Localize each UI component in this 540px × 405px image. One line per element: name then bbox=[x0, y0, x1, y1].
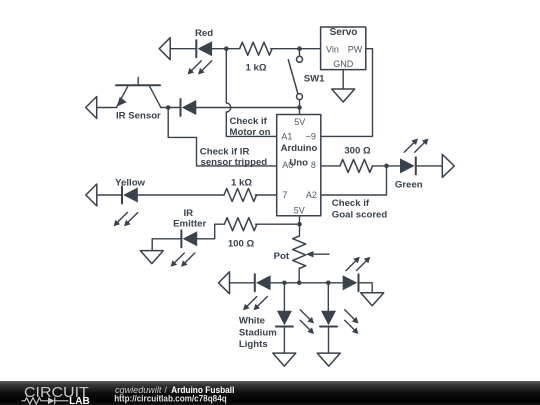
logo doodle: resistor bbox=[25, 398, 48, 404]
wire R4 to node F bbox=[373, 165, 401, 167]
node A junction dot bbox=[224, 46, 229, 51]
LED D4 IR Emitter bbox=[181, 230, 197, 247]
port flag P2 (IR sensor row) bbox=[86, 97, 97, 119]
logo doodle: wire bbox=[22, 400, 26, 402]
logo doodle: diode bbox=[48, 397, 55, 404]
wire node I down to LED D9 bbox=[327, 283, 329, 311]
svg-text:LAB: LAB bbox=[69, 396, 90, 405]
LED D9 (down) bbox=[320, 311, 337, 327]
wire servo PW to vertical bbox=[321, 49, 373, 137]
light arrows of D6 bbox=[243, 297, 267, 311]
wire D2 to node C (with hop at x=226.3) bbox=[196, 107, 299, 109]
resistor R4 300 Ohm bbox=[340, 159, 373, 172]
resistor R3 100 Ohm bbox=[224, 218, 257, 231]
svg-text:5V: 5V bbox=[294, 117, 305, 127]
svg-text:7: 7 bbox=[283, 190, 288, 200]
svg-text:5V: 5V bbox=[294, 206, 305, 216]
svg-text:~9: ~9 bbox=[306, 132, 316, 142]
ground under D8 bbox=[273, 353, 296, 366]
svg-text:sensor tripped: sensor tripped bbox=[201, 157, 268, 168]
wire D7 to ground bbox=[359, 283, 373, 293]
wire port to Red LED bbox=[170, 48, 196, 50]
svg-text:8: 8 bbox=[311, 160, 316, 170]
phototransistor Q1 IR Sensor bbox=[116, 78, 161, 107]
svg-text:300 Ω: 300 Ω bbox=[344, 146, 371, 157]
servo box U2 bbox=[321, 27, 366, 70]
wire node F down to pin A2 bbox=[321, 166, 387, 195]
light arrows of D9 bbox=[345, 310, 359, 334]
svg-text:1 kΩ: 1 kΩ bbox=[245, 63, 266, 74]
port flag P5 (bottom bus) bbox=[219, 272, 230, 294]
wire port to IR sensor emitter bbox=[97, 107, 117, 109]
pot wiper arrow bbox=[306, 251, 329, 257]
svg-text:Arduino: Arduino bbox=[281, 143, 318, 154]
light arrows of Green LED bbox=[404, 139, 428, 153]
wire D4 anode up to R3 bbox=[197, 224, 224, 239]
wire D8 to ground bbox=[283, 327, 285, 354]
svg-text:Goal scored: Goal scored bbox=[332, 210, 388, 221]
wire port to Yellow LED bbox=[97, 194, 122, 196]
svg-text:Emitter: Emitter bbox=[173, 219, 206, 230]
wire Red LED to node A bbox=[212, 48, 240, 50]
svg-text:IR Sensor: IR Sensor bbox=[116, 110, 161, 121]
light arrows of IR Emitter bbox=[171, 253, 195, 267]
node E junction dot bbox=[297, 222, 302, 227]
wire pin 8 to R4 bbox=[321, 165, 340, 167]
node G junction dot bbox=[282, 281, 287, 286]
svg-text:GND: GND bbox=[333, 59, 354, 69]
svg-text:A2: A2 bbox=[306, 190, 317, 200]
logo doodle: wire to LAB bbox=[55, 400, 69, 402]
wire Arduino 5V bottom to node E bbox=[299, 216, 301, 236]
ground under D9 bbox=[317, 353, 340, 366]
svg-text:Check if: Check if bbox=[332, 198, 370, 209]
svg-text:Motor on: Motor on bbox=[230, 127, 271, 138]
svg-text:100 Ω: 100 Ω bbox=[228, 238, 255, 249]
ground at IR emitter bbox=[140, 251, 163, 264]
wire switch to node C and Arduino 5V top bbox=[299, 100, 301, 115]
svg-text:http://circuitlab.com/c78q84q: http://circuitlab.com/c78q84q bbox=[114, 394, 227, 404]
potentiometer R5 Pot bbox=[293, 236, 306, 269]
port flag P3 (yellow row) bbox=[86, 184, 97, 206]
node H junction dot bbox=[297, 281, 302, 286]
svg-text:Red: Red bbox=[195, 28, 213, 39]
LED D1 Red bbox=[196, 40, 212, 57]
wire collector to node D bbox=[161, 107, 181, 109]
svg-text:Green: Green bbox=[395, 179, 423, 190]
LED D5 Green bbox=[400, 157, 416, 174]
light arrows of Yellow LED bbox=[114, 213, 138, 227]
light arrows of D8 bbox=[300, 310, 314, 334]
svg-text:Check if: Check if bbox=[230, 116, 268, 127]
Arduino Uno box U1 bbox=[277, 115, 321, 216]
svg-text:White: White bbox=[239, 316, 265, 327]
wire R2 to pin 7 bbox=[255, 194, 277, 196]
svg-text:A1: A1 bbox=[281, 132, 292, 142]
wire R3 to node E (below Arduino 5V bottom) bbox=[256, 223, 300, 225]
light arrows of D7 bbox=[346, 257, 370, 271]
ground right of D7 bbox=[361, 293, 384, 306]
wire servo GND pin down bbox=[342, 70, 344, 89]
wire D5 to port bbox=[416, 165, 443, 167]
ground under servo bbox=[332, 89, 355, 102]
svg-text:Stadium: Stadium bbox=[239, 328, 277, 339]
light arrows of Red LED bbox=[188, 61, 212, 75]
svg-text:Yellow: Yellow bbox=[115, 177, 145, 188]
LED D3 Yellow bbox=[122, 187, 138, 204]
svg-text:Pot: Pot bbox=[274, 251, 290, 262]
svg-text:Vin: Vin bbox=[326, 44, 339, 54]
footer bar bbox=[0, 381, 540, 405]
wire node B to switch bbox=[299, 49, 301, 57]
wire D9 to ground bbox=[328, 327, 330, 354]
node I junction dot bbox=[326, 281, 331, 286]
wire node G down to LED D8 bbox=[283, 283, 285, 311]
node D junction dot bbox=[166, 105, 171, 110]
svg-text:PW: PW bbox=[348, 44, 363, 54]
wire D4 cathode to ground bbox=[152, 239, 181, 251]
LED D7 (bus right, pointing right) bbox=[343, 274, 359, 291]
wire node A down, hop over, to A1 pin bbox=[226, 49, 276, 137]
node C junction dot bbox=[297, 105, 302, 110]
node F junction dot bbox=[384, 164, 389, 169]
LED D8 (down) bbox=[276, 311, 293, 327]
bus wire bbox=[271, 282, 343, 284]
svg-text:A0: A0 bbox=[282, 160, 293, 170]
svg-text:Servo: Servo bbox=[330, 27, 358, 38]
svg-text:1 kΩ: 1 kΩ bbox=[231, 177, 252, 188]
port flag P4 (green row) bbox=[442, 154, 454, 177]
svg-text:Lights: Lights bbox=[239, 339, 268, 350]
svg-text:Check if IR: Check if IR bbox=[200, 146, 250, 157]
resistor R2 1 kOhm bbox=[224, 189, 257, 202]
footer background bbox=[0, 381, 540, 405]
wire Yellow LED to R2 bbox=[138, 194, 224, 196]
svg-text:SW1: SW1 bbox=[304, 73, 325, 84]
switch SW1 bbox=[288, 56, 302, 99]
wire port to LED D6 bbox=[230, 282, 255, 284]
LED D6 (white stadium, left) bbox=[255, 274, 271, 291]
node B junction dot bbox=[297, 46, 302, 51]
wire R1 to node B bbox=[271, 48, 321, 50]
resistor R1 1 kOhm bbox=[240, 42, 273, 55]
port flag P1 (red row) bbox=[159, 38, 170, 60]
LED D2 (IR detect) bbox=[181, 99, 197, 116]
wire node D down to branch bbox=[168, 108, 277, 166]
svg-text:IR: IR bbox=[184, 208, 194, 219]
wire pot to bottom bus bbox=[298, 270, 300, 283]
